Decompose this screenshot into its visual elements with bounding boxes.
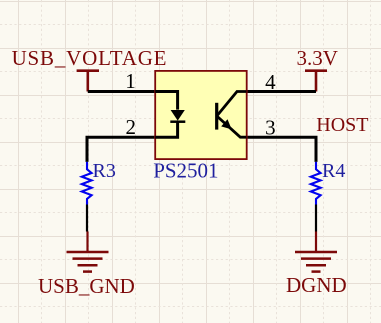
svg-text:R3: R3	[93, 160, 116, 182]
resistor R3	[82, 162, 92, 205]
power port USB_VOLTAGE bar symbol	[77, 71, 99, 92]
resistor R4	[311, 162, 321, 205]
wire R4 to DGND	[315, 205, 317, 232]
svg-text:USB_VOLTAGE: USB_VOLTAGE	[12, 46, 168, 70]
phototransistor emitter (pin 3 internal)	[217, 116, 247, 137]
svg-text:DGND: DGND	[286, 273, 347, 297]
LED cathode bar	[170, 120, 185, 123]
svg-text:4: 4	[265, 70, 276, 94]
power port 3.3V bar symbol	[305, 71, 327, 92]
phototransistor collector (pin 4 internal)	[217, 92, 247, 117]
svg-text:2: 2	[126, 115, 137, 139]
phototransistor emitter arrow	[221, 119, 232, 129]
wire pin3 HOST to R4	[247, 137, 317, 162]
svg-text:PS2501: PS2501	[153, 159, 218, 183]
phototransistor base bar	[215, 103, 218, 130]
LED cathode lead (pin 2 internal)	[155, 122, 177, 138]
wire R3 to USB_GND	[86, 205, 88, 232]
svg-text:R4: R4	[322, 160, 345, 182]
LED anode lead (pin 1 internal)	[155, 92, 177, 110]
svg-text:3: 3	[265, 116, 276, 140]
wire pin4 to 3.3V	[247, 90, 317, 93]
optocoupler PS2501 body	[155, 71, 247, 159]
LED triangle	[171, 110, 185, 121]
svg-text:USB_GND: USB_GND	[38, 274, 135, 298]
ground DGND symbol	[295, 232, 337, 272]
svg-text:HOST: HOST	[316, 114, 368, 136]
svg-text:3.3V: 3.3V	[297, 46, 338, 70]
wire pin2 to R3	[87, 137, 156, 162]
svg-text:1: 1	[125, 69, 136, 93]
ground USB_GND symbol	[67, 232, 109, 272]
wire pin1 to USB_VOLTAGE	[88, 90, 156, 93]
